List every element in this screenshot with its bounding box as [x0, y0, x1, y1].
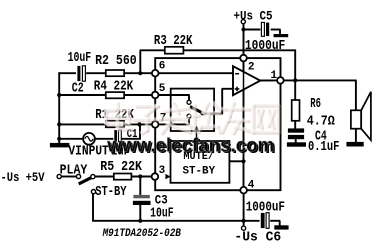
- mute switch upper contact: [187, 100, 191, 104]
- wire: mute box pin7 branch vertical: [188, 118, 190, 125]
- wire: pin7 row (R1): [59, 123, 190, 125]
- wire: C4 ground stub: [295, 139, 297, 143]
- svg-text:ST-BY: ST-BY: [95, 185, 127, 200]
- wire: C1 to junction riser: [120, 138, 141, 140]
- resistor R4 22K: [106, 92, 124, 98]
- ground (C6): [274, 225, 288, 229]
- op-amp inverting input mark: [235, 73, 239, 75]
- svg-text:5: 5: [159, 83, 166, 95]
- op-amp U1 triangle: [233, 66, 260, 95]
- mute switch lever: [190, 107, 203, 114]
- mute switch box: [171, 89, 214, 131]
- capacitor C6 1000uF: [260, 213, 271, 229]
- svg-text:ST-BY: ST-BY: [183, 166, 216, 178]
- svg-text:www.elecfans.com: www.elecfans.com: [106, 134, 274, 156]
- capacitor C3 10uF: [133, 195, 149, 198]
- pin 3: [152, 173, 159, 180]
- capacitor C2 10uF: [76, 66, 86, 82]
- wire: op-amp + input horizontal: [222, 88, 234, 90]
- wire: switch common to pin3: [95, 176, 152, 178]
- mute control arrow: [196, 129, 198, 142]
- -Us terminal: [242, 226, 246, 230]
- wire: speaker feed vertical: [355, 80, 357, 110]
- resistor R1 22K: [106, 121, 124, 127]
- svg-text:C3: C3: [155, 193, 168, 208]
- svg-text:4: 4: [248, 179, 255, 191]
- pin 7: [152, 121, 159, 128]
- svg-text:1000uF: 1000uF: [246, 201, 285, 216]
- wire: +Us terminal to pin2: [243, 24, 245, 59]
- svg-text:VINPUT: VINPUT: [68, 144, 108, 159]
- svg-text:1000uF: 1000uF: [245, 39, 285, 54]
- wire: op-amp output to pin1: [260, 79, 281, 81]
- mute switch lower contact: [187, 114, 191, 118]
- capacitor C1 input coupling: [113, 130, 121, 142]
- wire: pin4 down to -Us terminal: [243, 190, 245, 226]
- MUTE/ST-BY control block box: [171, 141, 230, 183]
- wire: feedback vertical from R3 to output row: [294, 50, 296, 81]
- wire: C5 ground step: [269, 29, 281, 31]
- ground (C4): [287, 142, 306, 146]
- wire: pin5 row (R4): [59, 94, 190, 96]
- svg-text:+Us C5: +Us C5: [234, 9, 273, 24]
- switch lever: [79, 177, 93, 184]
- pin3 arrow into control block: [165, 174, 170, 179]
- wire: mute box pin5 branch vertical: [188, 94, 190, 100]
- svg-text:0.1uF: 0.1uF: [308, 140, 339, 155]
- op-amp non-inverting input mark: [235, 88, 240, 90]
- ground (input): [50, 143, 70, 148]
- speaker: [351, 110, 361, 128]
- pin 5: [152, 92, 159, 99]
- wire: mute block output to power line: [229, 160, 243, 162]
- svg-text:10uF: 10uF: [150, 207, 174, 222]
- wire: PLAY contact link: [61, 176, 77, 178]
- pin 2: [240, 55, 247, 62]
- capacitor C5 1000uF: [260, 22, 270, 36]
- svg-text:-Us C6: -Us C6: [234, 231, 281, 246]
- wire: pin6 row to op-amp inverting input: [59, 72, 234, 74]
- svg-text:2: 2: [248, 62, 255, 74]
- resistor R3 22K feedback: [165, 47, 184, 54]
- svg-text:6: 6: [159, 61, 166, 73]
- wire: ST-BY drop vertical: [92, 193, 94, 221]
- svg-text:-Us +5V: -Us +5V: [1, 170, 45, 185]
- switch common contact: [91, 175, 95, 179]
- wire: C5 branch horizontal: [244, 29, 262, 31]
- svg-text:R5 22K: R5 22K: [100, 160, 142, 175]
- wire: C6 ground step: [269, 220, 280, 222]
- svg-text:R6: R6: [310, 97, 321, 112]
- wire: R6 to C4: [294, 121, 296, 129]
- svg-text:R4 22K: R4 22K: [94, 80, 134, 95]
- wire: internal power line pin2-pin4: [243, 58, 245, 190]
- PLAY contact: [76, 174, 80, 178]
- wire: C3 vertical branch: [139, 177, 141, 196]
- svg-text:1: 1: [271, 70, 278, 82]
- wire: R6 top connection: [294, 80, 296, 100]
- svg-text:4.7Ω: 4.7Ω: [307, 114, 335, 129]
- watermark: chinese characters: [117, 104, 120, 130]
- svg-text:R3 22K: R3 22K: [154, 34, 193, 49]
- wire: bottom rail: [92, 220, 261, 222]
- resistor R6 4.7ohm: [292, 100, 300, 121]
- wire: R3 left vertical drop: [139, 50, 141, 74]
- wire: op-amp + input riser: [221, 89, 223, 114]
- wire: mute lever common to box edge: [203, 112, 223, 114]
- wire: R3 row horizontal: [140, 49, 296, 51]
- wire: left input rail vertical: [58, 72, 60, 143]
- resistor R2 560: [106, 70, 124, 76]
- pin 1: [277, 77, 284, 84]
- capacitor C4 0.1uF: [288, 128, 304, 132]
- wire: input row VINPUT to C1: [59, 138, 116, 140]
- wire: speaker ground stub: [355, 129, 357, 143]
- op-amp IC TDA2052 package outline: [155, 58, 280, 190]
- ground (C5): [274, 34, 289, 37]
- junction dots: [57, 93, 61, 97]
- ground (speaker): [346, 142, 363, 147]
- svg-text:3: 3: [159, 165, 166, 177]
- PLAY switch terminal: [57, 174, 61, 178]
- pin 4: [240, 187, 247, 194]
- signal source VINPUT: [83, 133, 95, 145]
- pin 6: [152, 70, 159, 77]
- wire: output row pin1 to speaker corner: [280, 79, 356, 81]
- svg-text:R2 560: R2 560: [95, 54, 137, 69]
- +Us terminal: [241, 20, 245, 24]
- resistor R5 22K: [114, 174, 132, 180]
- ST-BY contact: [91, 190, 95, 194]
- svg-text:M91TDA2052-02B: M91TDA2052-02B: [102, 228, 181, 240]
- svg-text:C2: C2: [72, 82, 84, 97]
- svg-text:PLAY: PLAY: [60, 164, 88, 179]
- svg-text:10uF: 10uF: [68, 51, 92, 66]
